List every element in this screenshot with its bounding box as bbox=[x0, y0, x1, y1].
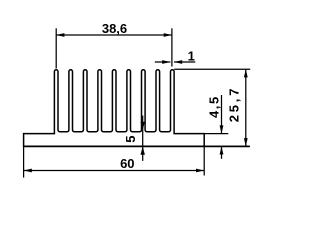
svg-text:5: 5 bbox=[123, 136, 138, 143]
svg-text:38,6: 38,6 bbox=[102, 21, 127, 36]
svg-text:4,5: 4,5 bbox=[206, 95, 221, 118]
svg-text:1: 1 bbox=[188, 49, 195, 64]
svg-text:60: 60 bbox=[120, 156, 134, 171]
svg-text:25,7: 25,7 bbox=[226, 86, 241, 123]
